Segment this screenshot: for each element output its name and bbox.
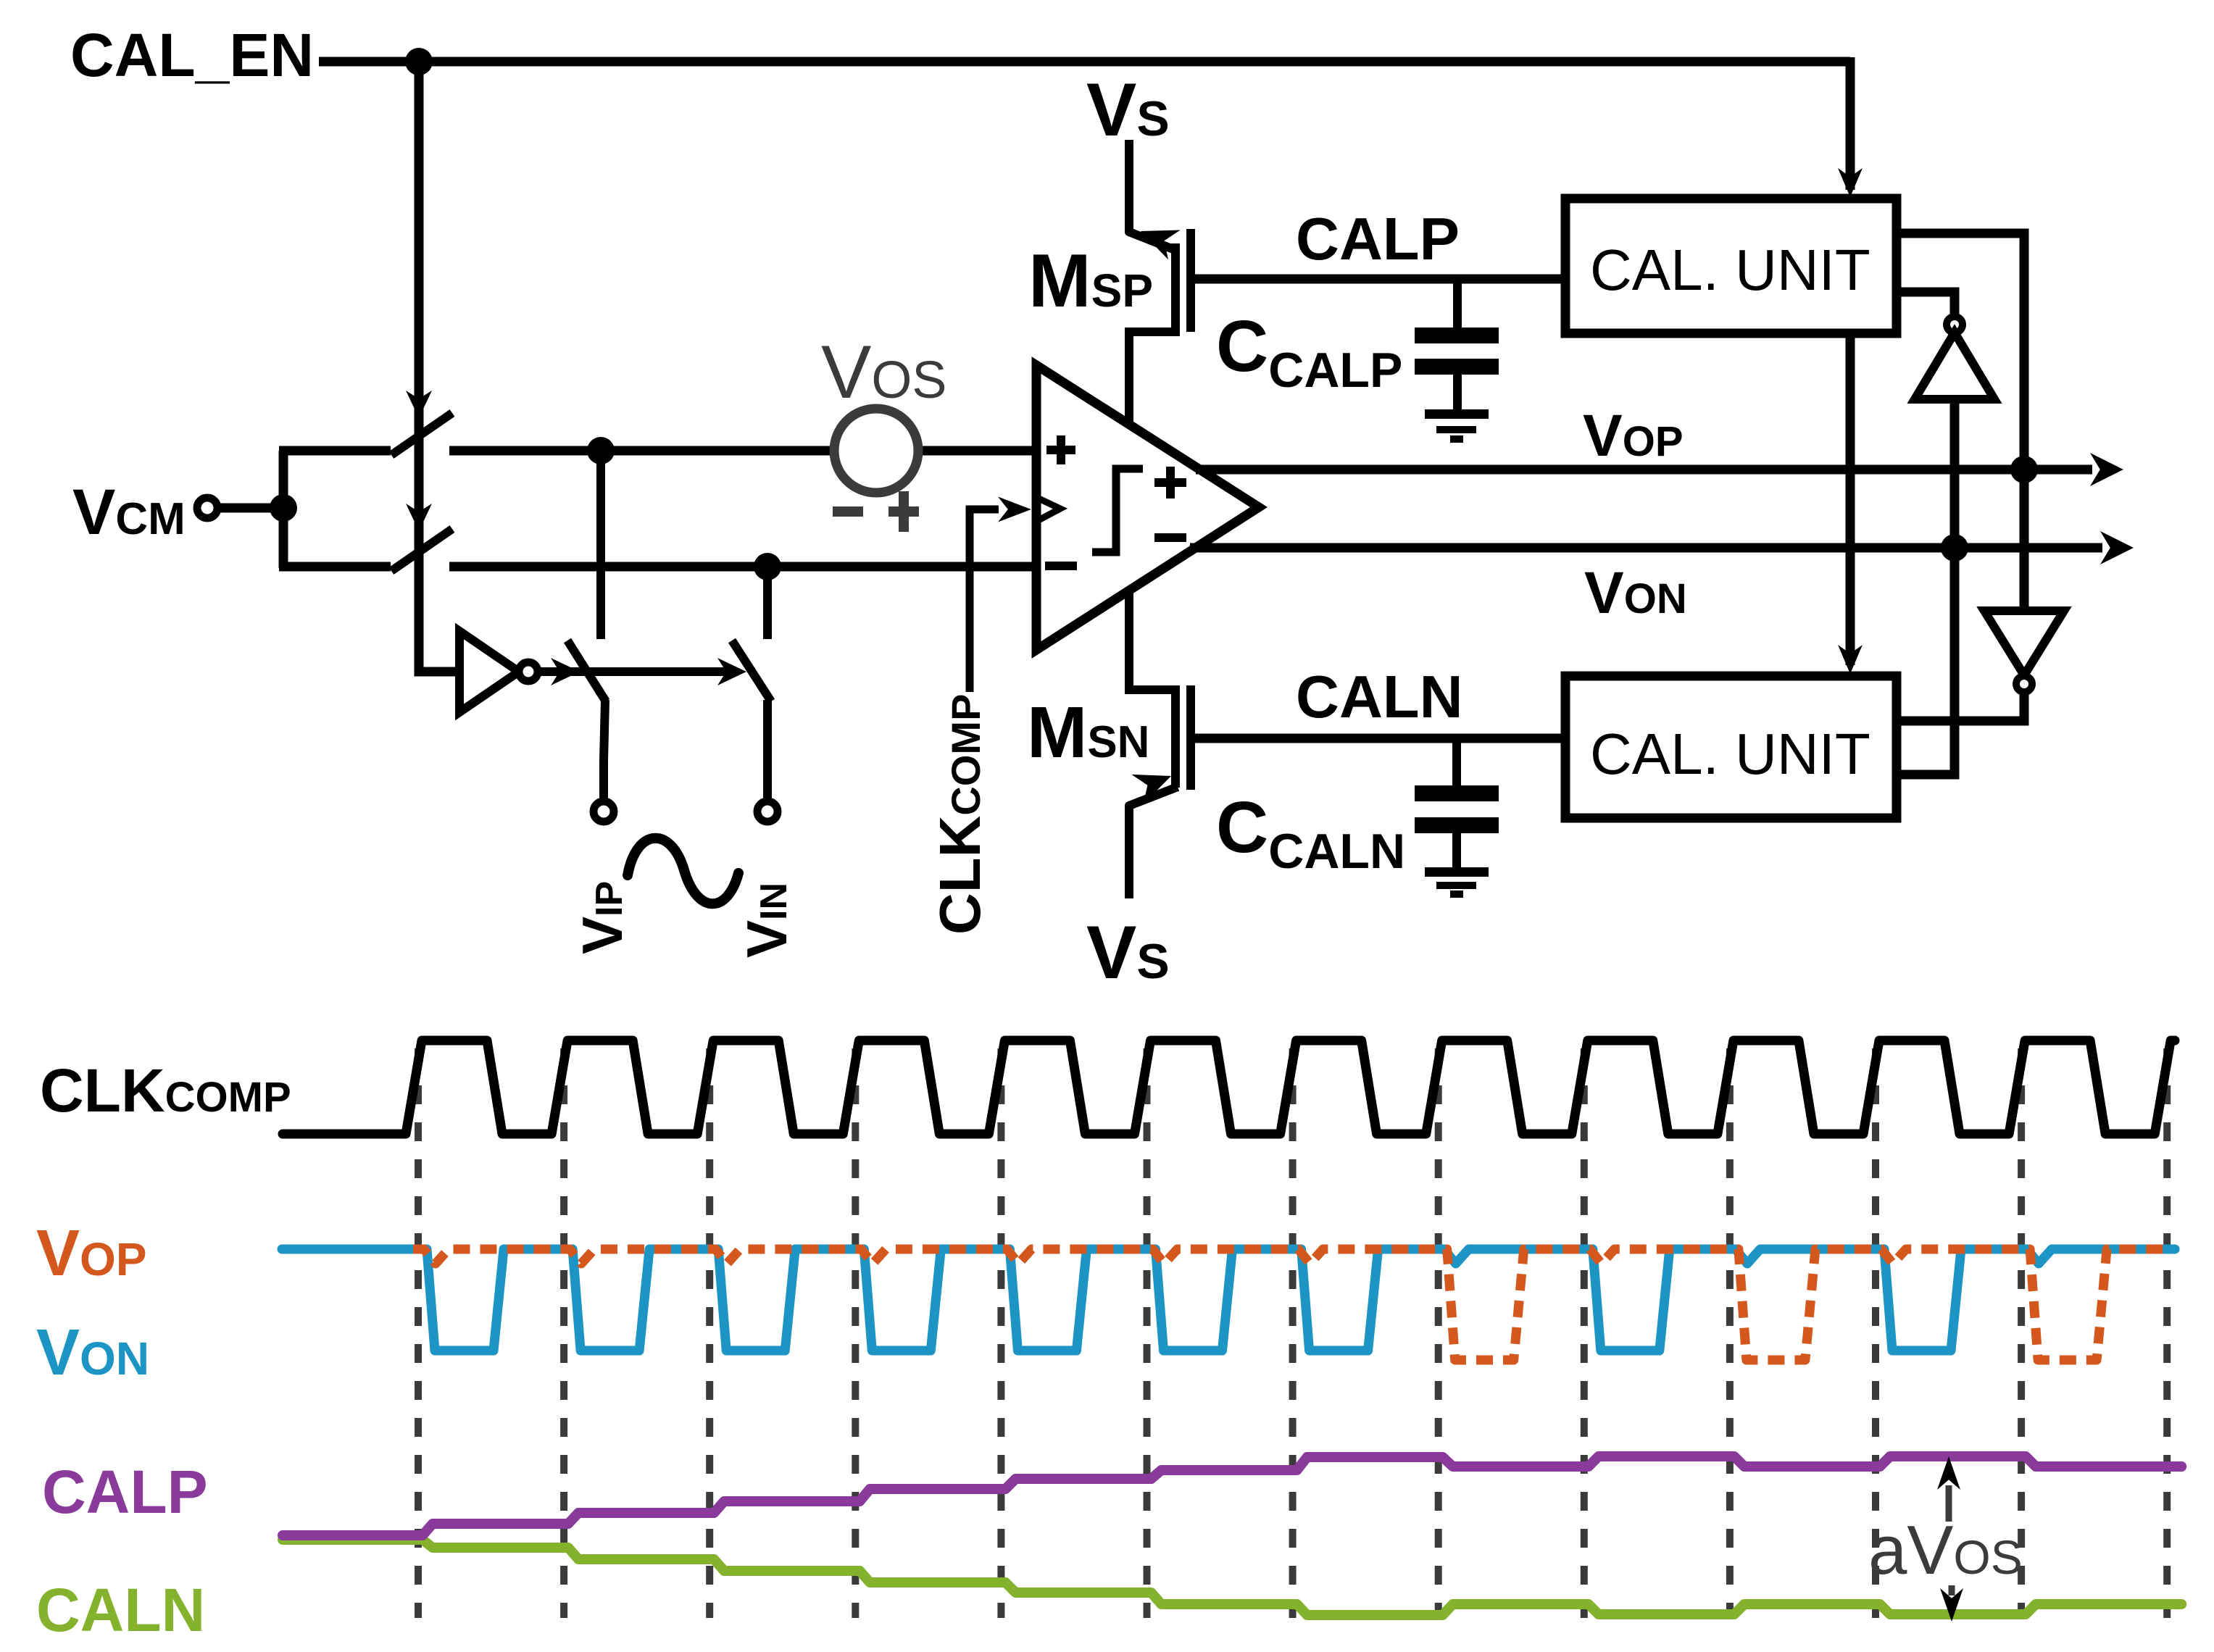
svg-text:CAL. UNIT: CAL. UNIT bbox=[1590, 722, 1870, 786]
svg-text:CAL_EN: CAL_EN bbox=[70, 21, 314, 89]
svg-text:CALP: CALP bbox=[42, 1458, 208, 1526]
svg-text:CALP: CALP bbox=[1296, 205, 1460, 272]
svg-text:CAL. UNIT: CAL. UNIT bbox=[1590, 238, 1870, 302]
svg-text:CALN: CALN bbox=[36, 1576, 205, 1644]
svg-text:CALN: CALN bbox=[1296, 663, 1463, 730]
